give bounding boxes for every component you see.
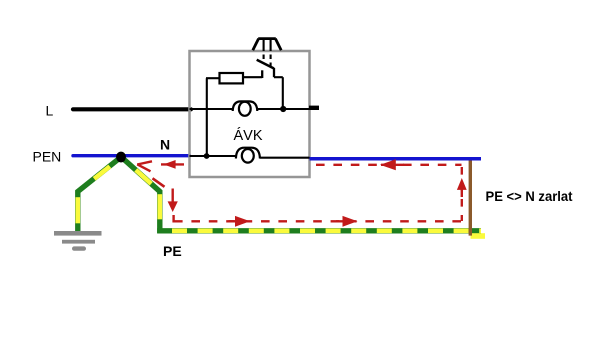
wire L stub right of box xyxy=(309,106,319,110)
svg-text:N: N xyxy=(160,137,170,153)
CT current transformer on L (toroid) xyxy=(239,102,251,116)
CT current transformer on N (hump) xyxy=(236,148,260,159)
wire PE horizontal run (green/yellow) xyxy=(157,228,481,233)
switch test button contact xyxy=(257,60,274,78)
wire resistor to switch xyxy=(243,76,262,78)
fault current dashed path bottom xyxy=(174,220,462,222)
wire PE yellow end droop xyxy=(471,233,486,239)
wire PEN conductor (blue, left) xyxy=(73,154,190,157)
svg-text:PE <> N zarlat: PE <> N zarlat xyxy=(486,188,573,204)
CT current transformer on L (hump) xyxy=(233,101,258,111)
linkage dashed mechanical link xyxy=(264,40,271,67)
fault current arrow down (into PE) xyxy=(168,189,178,213)
ground earth electrode xyxy=(54,231,102,251)
wire brown PE-N fault bridge xyxy=(469,157,472,236)
fault current dashed diagonal at junction xyxy=(153,178,165,187)
wire test branch vertical xyxy=(206,78,208,156)
node test circuit to L junction xyxy=(280,106,286,112)
fault current arrow top-left xyxy=(161,160,184,169)
fault current dashed corner at PE xyxy=(172,215,174,223)
svg-text:PE: PE xyxy=(163,243,182,259)
wire N conductor (blue, right) xyxy=(310,157,482,161)
wire L phase line (left) xyxy=(73,107,191,111)
wire switch to L drop xyxy=(274,77,283,109)
wire PE right drop (green/yellow) xyxy=(124,159,160,231)
fault current dashed path top-right xyxy=(316,164,462,166)
enclosure ÁVK residual-current device box xyxy=(190,51,310,177)
actuator manual test button xyxy=(253,39,281,51)
fault current arrow bottom 2 (pointing right) xyxy=(336,216,358,227)
wire L inside box xyxy=(190,108,310,110)
fault current arrow top-left chevron xyxy=(137,161,152,171)
svg-text:PEN: PEN xyxy=(33,149,62,165)
node test circuit to N junction xyxy=(204,153,210,159)
wire N inside box xyxy=(190,156,310,158)
node PEN-PE split junction xyxy=(116,152,126,163)
CT current transformer on N (toroid) xyxy=(242,149,254,163)
svg-text:L: L xyxy=(46,103,54,119)
fault current dashed path right vertical xyxy=(461,167,463,221)
fault current arrow top-right (pointing left) xyxy=(380,159,404,170)
svg-text:ÁVK: ÁVK xyxy=(234,127,263,144)
fault current arrow up (through fault bridge) xyxy=(457,178,467,197)
wire test branch to resistor xyxy=(206,77,220,79)
fault current arrow bottom 1 (pointing right) xyxy=(229,216,251,227)
resistor test resistor xyxy=(220,73,244,83)
wire PE left drop (green/yellow to earth) xyxy=(78,159,119,232)
